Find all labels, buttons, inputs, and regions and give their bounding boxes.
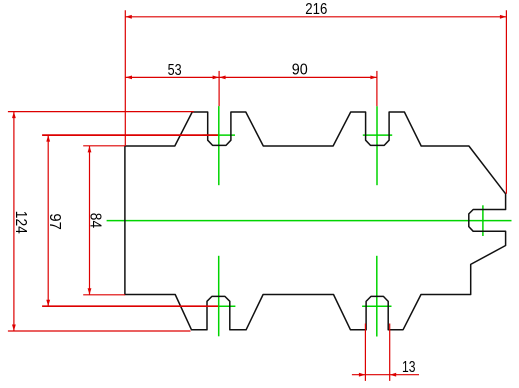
dim 124 top extension bbox=[8, 111, 194, 113]
top slot 1 vertical centerline bbox=[218, 106, 220, 185]
top slot 2 horizontal centerline bbox=[363, 134, 392, 136]
arrow 84 bottom bbox=[88, 288, 92, 295]
dim 97 line bbox=[47, 135, 49, 306]
arrow 216 left bbox=[125, 15, 132, 19]
arrow 124 bottom bbox=[12, 325, 16, 332]
arrow 124 top bbox=[12, 112, 16, 119]
dim 216 right extension bbox=[505, 10, 507, 194]
arrow 13 right (outside) bbox=[390, 373, 397, 377]
dim 53/90 line bbox=[126, 76, 377, 78]
svg-text:13: 13 bbox=[402, 359, 416, 376]
part outline bbox=[125, 112, 506, 330]
arrow 216 right bbox=[500, 15, 507, 19]
main horizontal centerline bbox=[107, 220, 512, 222]
svg-text:124: 124 bbox=[12, 211, 29, 234]
dim 13 line bbox=[352, 374, 419, 376]
svg-text:53: 53 bbox=[168, 62, 182, 79]
bottom slot 1 horizontal centerline bbox=[203, 305, 236, 307]
bottom slot 2 horizontal centerline bbox=[362, 305, 391, 307]
dim 124 bottom extension bbox=[8, 330, 191, 332]
dim 13 left extension bbox=[364, 324, 366, 381]
dim 90 right extension bbox=[376, 71, 378, 106]
dim 97 top extension bbox=[42, 134, 218, 136]
top slot 1 horizontal centerline bbox=[203, 134, 236, 136]
dim 84 top extension bbox=[83, 145, 125, 147]
dim 124 line bbox=[13, 112, 15, 331]
top slot 2 vertical centerline bbox=[376, 106, 378, 185]
svg-text:216: 216 bbox=[305, 1, 327, 18]
arrow 97 bottom bbox=[46, 300, 50, 307]
dim 216 line bbox=[125, 16, 506, 18]
svg-text:97: 97 bbox=[46, 213, 63, 230]
dim 216 left extension bbox=[124, 10, 126, 146]
arrow 90 left bbox=[219, 75, 226, 79]
arrow 53 right bbox=[213, 75, 220, 79]
svg-text:84: 84 bbox=[87, 213, 104, 229]
arrow 13 left (outside) bbox=[359, 373, 366, 377]
dim 53/90 middle extension bbox=[218, 71, 220, 106]
bottom slot 2 vertical centerline bbox=[376, 256, 378, 337]
bottom slot 1 vertical centerline bbox=[218, 256, 220, 336]
dim 13 right extension bbox=[389, 324, 391, 381]
arrow 53 left bbox=[126, 75, 133, 79]
dim 84 line bbox=[89, 146, 91, 295]
dim 84 bottom extension bbox=[83, 294, 125, 296]
arrow 90 right bbox=[370, 75, 377, 79]
arrow 97 top bbox=[46, 135, 50, 142]
arrow 84 top bbox=[88, 146, 92, 153]
right notch vertical centerline bbox=[482, 205, 484, 236]
dim 97 bottom extension bbox=[42, 305, 218, 307]
dimension texts bbox=[12, 1, 416, 376]
green centerlines bbox=[107, 106, 512, 336]
svg-text:90: 90 bbox=[292, 62, 308, 79]
